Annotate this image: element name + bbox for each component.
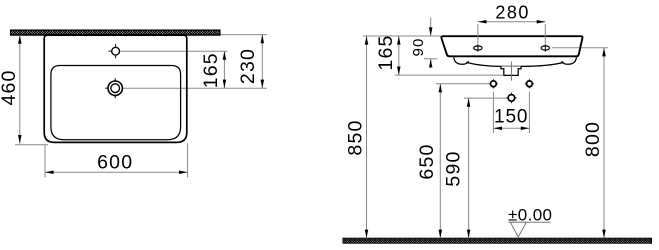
basin outer outline (plan) [44,35,187,142]
svg-text:150: 150 [494,107,528,128]
svg-text:850: 850 [344,119,366,155]
drain hole (plan) [105,78,122,98]
dimension 150 (supply spacing) [493,92,529,133]
dimension 850 (floor to rim) [344,36,368,238]
right fixing hole (front) [541,44,549,51]
extension line from faucet hole [120,50,227,52]
svg-text:±0.00: ±0.00 [508,206,552,225]
floor line (hatched) [343,238,652,243]
dimension 280 (fixing holes) [478,3,545,44]
svg-text:165: 165 [200,52,222,88]
extension line supply level [436,83,489,85]
svg-text:460: 460 [0,69,20,105]
dimension 600 (plan width) [45,143,188,177]
right water supply point [525,79,534,88]
basin inner bowl rim (plan) [51,66,181,140]
dimension 650 (floor to supply) [416,84,442,238]
svg-text:800: 800 [582,121,604,157]
dimension 800 (floor to fixing holes) [582,48,606,238]
dimension 590 (floor to outlet) [443,98,471,238]
extension line from drain hole [123,87,267,89]
left fixing hole (front) [474,44,482,51]
svg-text:90: 90 [410,37,427,56]
rim-level extension line [363,35,441,37]
svg-text:165: 165 [375,34,397,70]
dimension 165 (front, rim to outlet) [375,34,503,75]
faucet hole (plan) [109,44,120,58]
basin body fill (front) [441,36,582,56]
svg-text:650: 650 [416,143,438,179]
basin body fill (plan) [44,35,187,142]
svg-text:600: 600 [97,151,133,173]
extension line outlet level [464,97,506,99]
svg-text:590: 590 [443,150,465,186]
svg-text:280: 280 [495,3,530,23]
dimension 460 (plan depth) [0,35,48,145]
floor level marker +-0.00 [508,206,552,237]
centerline through tailpiece [511,62,513,81]
bowl underside curve [466,62,564,66]
svg-text:230: 230 [237,48,259,84]
extension line from wall end [220,34,267,36]
dimension 165 (plan, faucet to drain) [200,51,226,88]
left water supply point [489,79,498,88]
extension line fixing hole level [552,47,608,49]
bowl underside left ear [454,57,469,64]
dimension 230 (plan, wall to drain) [237,35,264,89]
wall section bar (plan view) [11,30,221,35]
waste outlet point [506,93,517,104]
bowl underside right ear [562,57,577,64]
dimension 90 (basin height) [410,18,438,69]
drain tailpiece (front) [501,66,521,75]
basin body (front view) [441,36,582,56]
